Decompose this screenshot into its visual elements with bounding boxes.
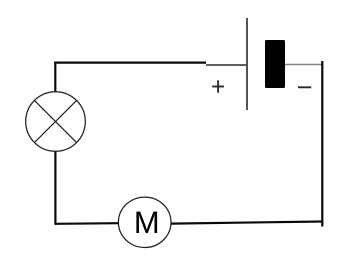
battery B1 positive plate (long)	[246, 18, 248, 110]
wire left vertical upper (top corner to lamp)	[54, 62, 56, 93]
battery B1 plus label	[212, 80, 224, 92]
wire left vertical lower (lamp to bottom corner)	[54, 151, 56, 225]
wire top from lamp corner to battery	[54, 61, 206, 63]
lamp L1 cross line 2	[34, 100, 76, 142]
battery B1 negative plate (thick bar)	[265, 40, 285, 88]
wire right vertical	[321, 61, 323, 227]
wire bottom left from corner to motor	[55, 222, 119, 225]
wire thin segment into battery positive plate	[206, 64, 248, 66]
battery B1 minus label	[298, 86, 311, 88]
motor U1 label M	[136, 212, 157, 233]
motor U1 circle	[118, 197, 171, 247]
wire bottom right from motor to right corner	[171, 222, 323, 224]
lamp L1 cross line 1	[34, 100, 76, 142]
lamp L1 circle	[26, 92, 86, 152]
wire from negative plate to right side (gray)	[285, 64, 322, 66]
